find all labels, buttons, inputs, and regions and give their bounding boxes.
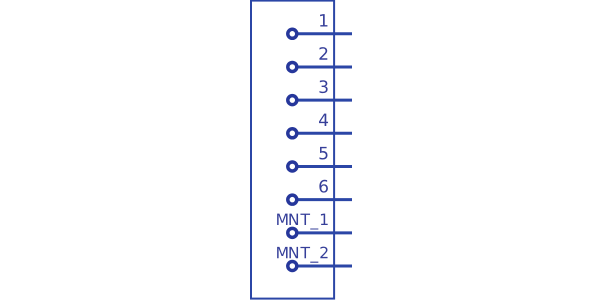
- pin 2 open-circle terminal: [288, 62, 297, 71]
- pin 1 wire: [297, 32, 352, 35]
- pin MNT_1 open-circle terminal: [288, 228, 297, 237]
- pin 5 wire: [297, 165, 352, 168]
- pin 3 open-circle terminal: [288, 96, 297, 105]
- pin number label 5: [320, 147, 328, 160]
- pin 1 open-circle terminal: [288, 29, 297, 38]
- pin name label MNT_2: [277, 247, 327, 263]
- pin number label 1: [320, 14, 327, 26]
- pin 2 wire: [297, 65, 352, 68]
- pin MNT_2 wire: [297, 265, 352, 268]
- pin 5 open-circle terminal: [288, 162, 297, 171]
- pin name label MNT_1: [277, 214, 328, 230]
- pin 6 open-circle terminal: [288, 195, 297, 204]
- pin 3 wire: [297, 99, 352, 102]
- pin number label 2: [319, 47, 327, 60]
- pin number label 3: [319, 80, 327, 93]
- pin 6 wire: [297, 198, 352, 201]
- pin 4 wire: [297, 132, 352, 135]
- pin number label 6: [319, 180, 328, 193]
- pin MNT_2 open-circle terminal: [288, 262, 297, 271]
- pin number label 4: [319, 114, 328, 126]
- pin 4 open-circle terminal: [288, 129, 297, 138]
- connector J1 body: [251, 1, 334, 299]
- pin MNT_1 wire: [297, 231, 352, 234]
